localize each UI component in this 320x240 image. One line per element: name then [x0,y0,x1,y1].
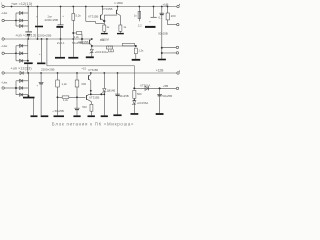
svg-text:КТ315Б: КТ315Б [89,68,99,72]
svg-text:КТ315Б: КТ315Б [79,40,89,44]
svg-text:~Uвх: ~Uвх [1,81,8,85]
svg-text:1.: 1. [1,1,3,5]
svg-text:1,2к: 1,2к [63,98,69,102]
svg-text:≈15: ≈15 [82,66,87,70]
svg-text:1,2к: 1,2к [138,48,144,52]
svg-text:1,2к: 1,2к [62,82,68,86]
svg-text:50х25В: 50х25В [119,94,129,98]
svg-text:200: 200 [171,14,176,18]
svg-text:2,2: 2,2 [138,24,142,28]
svg-text:+uп ≈12(13): +uп ≈12(13) [11,2,32,6]
svg-text:+ 50х25В: + 50х25В [52,109,64,113]
svg-text:2200×25В: 2200×25В [45,18,59,22]
svg-text:2х 0,1: 2х 0,1 [57,41,65,45]
svg-text:~Uвх: ~Uвх [1,44,8,48]
svg-text:+uп ≈12(13): +uп ≈12(13) [15,34,36,38]
svg-text:КТ315Б: КТ315Б [88,14,98,18]
svg-text:+ЦВ: +ЦВ [163,2,169,6]
svg-text:КТ361А: КТ361А [140,84,150,88]
svg-text:500: 500 [137,92,142,96]
svg-text:п 180К: п 180К [114,1,123,5]
svg-text:+КС156А: +КС156А [137,101,149,105]
svg-text:50х25В: 50х25В [162,94,172,98]
svg-text:0,1: 0,1 [159,16,163,20]
svg-text:Д814Б: Д814Б [107,88,116,92]
svg-text:Блок питания к ПК «Микроша»: Блок питания к ПК «Микроша» [52,122,134,127]
svg-text:2200×25В: 2200×25В [38,34,52,38]
svg-text:+12В: +12В [156,68,164,72]
svg-text:5,2к: 5,2к [76,13,82,17]
svg-text:+5В: +5В [163,84,168,88]
svg-text:500: 500 [82,105,87,109]
svg-text:330: 330 [81,82,86,86]
svg-text:«КС133А»: «КС133А» [95,50,109,54]
svg-text:КТ315Б: КТ315Б [89,95,99,99]
svg-text:50х25В: 50х25В [158,31,168,35]
svg-text:2200×25В: 2200×25В [41,68,55,72]
svg-text:~Uвх: ~Uвх [1,11,8,15]
svg-text:+uп ≈12(13): +uп ≈12(13) [11,66,32,70]
svg-text:КТ315Б: КТ315Б [103,7,113,11]
svg-text:1,2к: 1,2к [74,35,80,39]
svg-text:330: 330 [100,38,105,42]
